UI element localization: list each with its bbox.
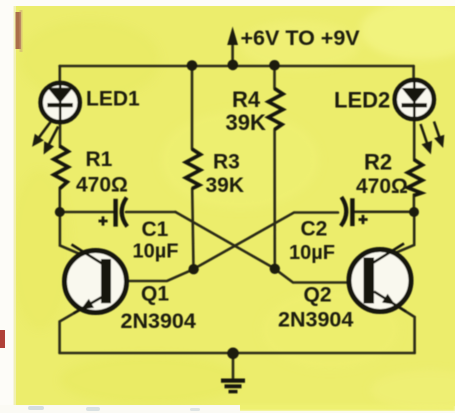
svg-text:2N3904: 2N3904 xyxy=(121,309,196,333)
top white margin xyxy=(0,0,455,6)
wire supply arrow shaft xyxy=(231,42,234,64)
node D2 (R4/Q2 base) xyxy=(270,264,280,274)
svg-text:Q2: Q2 xyxy=(304,284,332,307)
svg-text:39K: 39K xyxy=(226,110,266,135)
svg-text:R2: R2 xyxy=(364,150,392,175)
capacitor C1 xyxy=(99,198,128,227)
svg-text:R3: R3 xyxy=(213,151,240,174)
svg-text:Q1: Q1 xyxy=(141,283,169,306)
wire LED2 top lead xyxy=(412,66,415,79)
svg-text:+6V TO +9V: +6V TO +9V xyxy=(241,26,361,50)
resistor R1 xyxy=(54,146,68,189)
wire R2 to node J2 xyxy=(413,195,416,209)
svg-text:LED1: LED1 xyxy=(86,88,140,111)
svg-text:470Ω: 470Ω xyxy=(356,175,408,198)
svg-text:2N3904: 2N3904 xyxy=(278,308,353,332)
svg-text:LED2: LED2 xyxy=(334,88,390,113)
wire cross-couple C1 to node D2 xyxy=(176,212,275,269)
wire C2 to J2 xyxy=(354,211,410,214)
left white margin xyxy=(0,0,14,413)
wire R4 bottom segment to node D2 xyxy=(273,130,276,265)
wire R1 to node J1 xyxy=(58,188,61,208)
resistor R3 xyxy=(186,149,201,189)
wire R3 top segment xyxy=(191,66,194,150)
wire R3 bottom segment to node D1 xyxy=(192,189,193,269)
node top rail R4 xyxy=(269,60,280,71)
LED1 xyxy=(41,83,80,122)
node J2 (R2/C2/Q2 collector) xyxy=(409,207,419,217)
LED2 light arrow a xyxy=(421,124,433,154)
node top rail R3 xyxy=(187,60,198,71)
node J1 (R1/C1/Q1 collector) xyxy=(55,207,65,217)
transistor Q2 xyxy=(349,244,411,312)
svg-text:10µF: 10µF xyxy=(289,242,335,264)
resistor R2 xyxy=(408,160,423,196)
supply arrow head xyxy=(227,27,238,46)
wire R4 top segment xyxy=(273,66,276,89)
svg-text:R1: R1 xyxy=(86,148,113,171)
LED1 light arrow a xyxy=(32,122,50,147)
svg-text:R4: R4 xyxy=(232,87,261,112)
capacitor C2 xyxy=(341,197,368,226)
wire LED1 top lead xyxy=(58,66,61,81)
wire cross-couple node D1 to C2 xyxy=(194,213,338,270)
node top rail supply xyxy=(228,60,239,71)
wire top rail xyxy=(60,65,414,68)
wire Q1 base lead xyxy=(112,269,194,281)
faint red trim line top-left xyxy=(16,12,22,49)
wire LED2 bottom lead xyxy=(413,122,416,160)
faint print specks bottom xyxy=(28,406,200,411)
wire bottom rail xyxy=(60,352,415,355)
svg-text:470Ω: 470Ω xyxy=(76,174,128,197)
wire ground stub xyxy=(232,354,235,379)
wire Q2 emitter lead xyxy=(374,292,415,353)
transistor Q1 xyxy=(65,245,127,314)
resistor R4 xyxy=(268,89,283,130)
svg-text:10µF: 10µF xyxy=(133,241,179,263)
wire Q1 collector lead xyxy=(60,215,102,264)
svg-text:39K: 39K xyxy=(206,174,245,197)
wire Q2 base lead xyxy=(275,269,364,283)
bottom white margin xyxy=(0,405,240,413)
LED2 xyxy=(395,80,434,119)
wire Q2 collector lead xyxy=(373,216,415,263)
ground xyxy=(221,381,245,392)
svg-text:C2: C2 xyxy=(301,218,328,241)
node D1 (R3/Q1 base) xyxy=(188,264,198,274)
wire C1 to bend xyxy=(126,211,176,214)
svg-text:C1: C1 xyxy=(142,218,169,241)
wire J1 to C1 xyxy=(60,211,113,214)
LED2 light arrow b xyxy=(434,122,444,148)
LED1 light arrow b xyxy=(44,127,59,155)
wire Q1 emitter lead xyxy=(60,297,102,353)
wire LED1 bottom lead xyxy=(59,124,62,147)
node ground junction xyxy=(227,348,239,360)
registration red mark left edge xyxy=(0,330,5,348)
